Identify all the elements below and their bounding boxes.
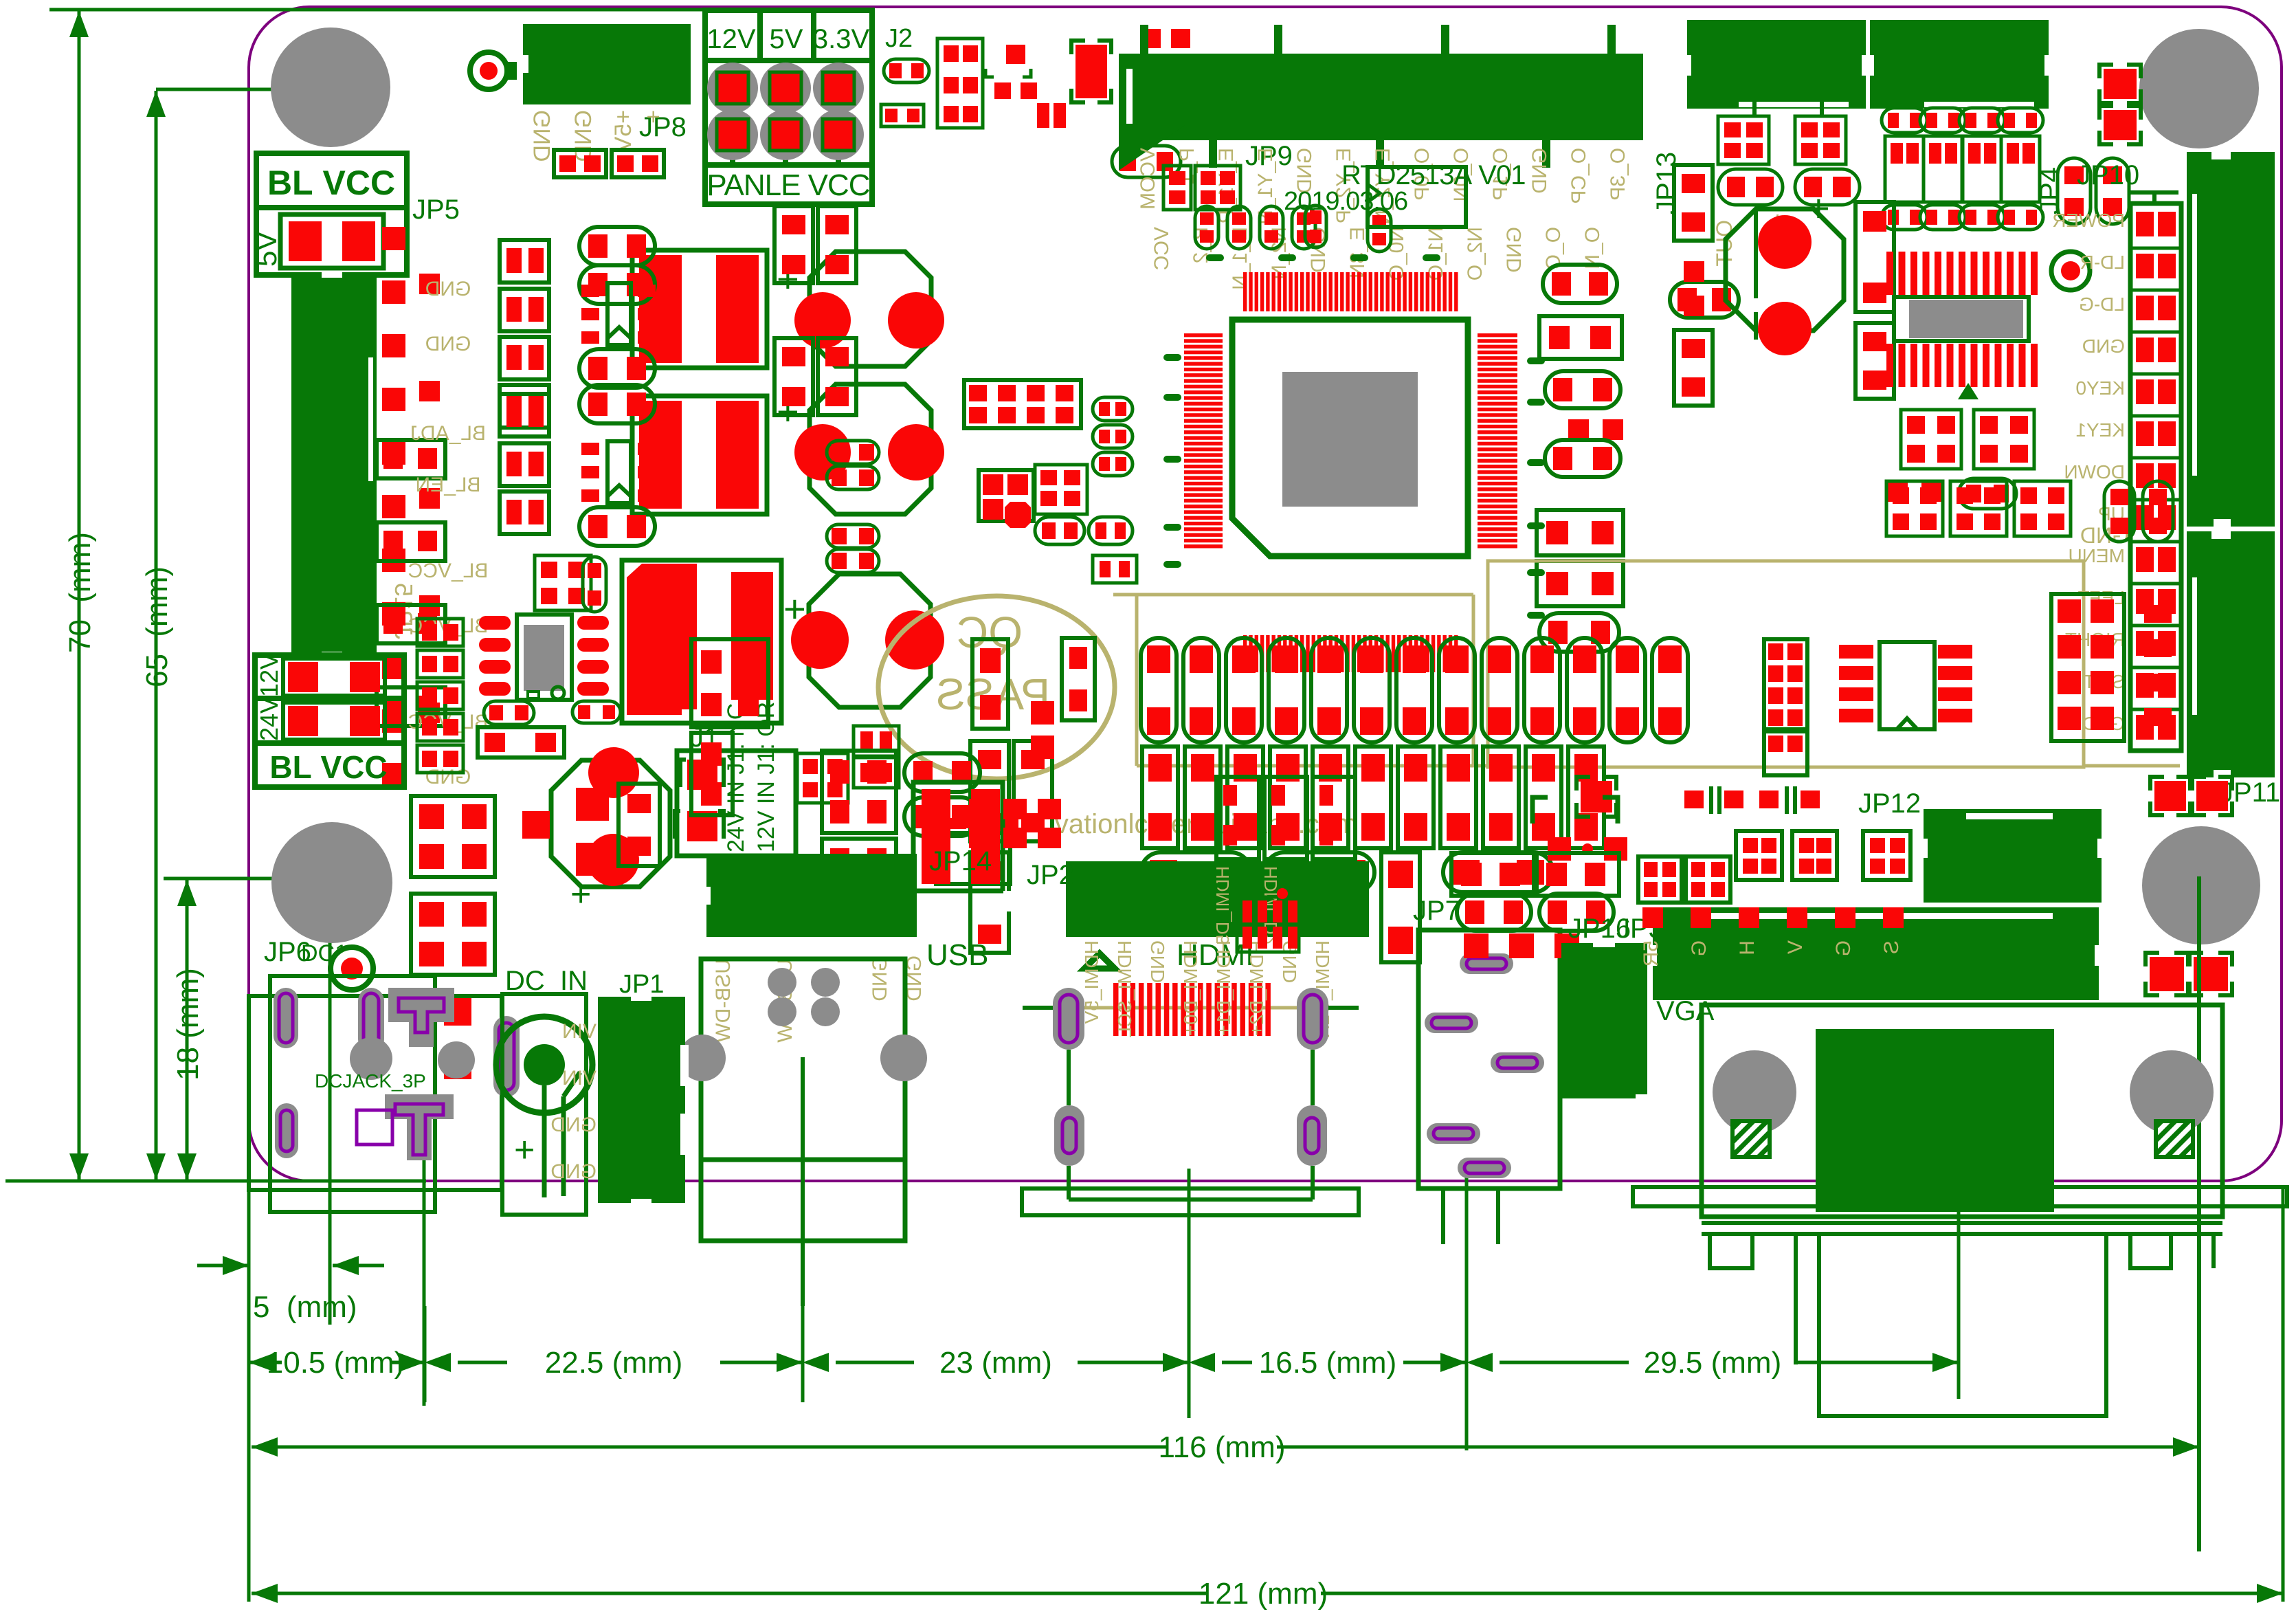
svg-text:BL_EN: BL_EN — [415, 474, 480, 496]
board outline — [249, 7, 2282, 1181]
svg-text:GND: GND — [570, 110, 597, 162]
svg-text:G: G — [1688, 940, 1710, 956]
pad cluster left of JP9 labels — [1163, 166, 1191, 210]
svg-text:5 (mm): 5 (mm) — [253, 1290, 357, 1324]
U1 bottom pin row — [1243, 635, 1247, 672]
pads left of C10 — [1674, 165, 1713, 241]
chip U2 SOP gray — [1884, 252, 2040, 295]
svg-text:+: + — [514, 1130, 535, 1170]
connector block PANLE VCC — [705, 10, 872, 204]
HDMI shell wires — [1067, 1050, 1071, 1105]
pads top-right corner — [2104, 69, 2137, 99]
dim 121 mm — [250, 1592, 254, 1595]
pad cluster mid-left lower — [411, 796, 495, 877]
svg-text:116 (mm): 116 (mm) — [1159, 1430, 1286, 1464]
regulator U3 SOP8 — [517, 615, 572, 700]
dimension 70 mm — [49, 8, 832, 12]
svg-text:JP2: JP2 — [1027, 860, 1074, 890]
svg-text:S: S — [1880, 940, 1903, 954]
opto U5 outline — [936, 833, 1010, 884]
diode D2 footprint — [579, 385, 655, 423]
connector JP7 jack footprint — [1418, 930, 1560, 1189]
VGA bottom rails — [1702, 1221, 2222, 1225]
test ring pad right — [2051, 252, 2090, 290]
chip U4 SOIC8 — [1880, 642, 1935, 729]
khaki trace HDMI row — [1024, 1006, 1357, 1010]
svg-text:G: G — [1832, 940, 1855, 956]
svg-text:GND: GND — [550, 1160, 597, 1183]
svg-text:23 (mm): 23 (mm) — [939, 1346, 1052, 1380]
svg-text:VIN: VIN — [562, 1020, 597, 1043]
capacitor C3 electrolytic — [809, 574, 930, 707]
DC jack pads — [274, 988, 298, 1048]
pad cluster right of U1 lower — [1537, 510, 1623, 555]
connector JP13 — [1687, 20, 1866, 109]
silkscreen QC PASS stamp — [878, 596, 1115, 779]
transformer T1 footprint — [632, 250, 767, 368]
connector JP9 — [1119, 54, 1643, 140]
purple fiducial square — [357, 1110, 392, 1145]
svg-text:HDMI_SCL: HDMI_SCL — [1114, 940, 1135, 1038]
capacitor C1 electrolytic — [810, 252, 931, 366]
pad cluster right of U1 upper — [1543, 265, 1617, 303]
JP9 pin1 triangle — [1119, 125, 1185, 170]
svg-text:JP11: JP11 — [2220, 777, 2280, 808]
pad cluster above JP7 — [1451, 853, 1534, 896]
connector JP16 — [1561, 943, 1647, 1098]
svg-text:KEY1: KEY1 — [2075, 419, 2125, 441]
bottom bracket under HDMI — [1022, 1189, 1359, 1215]
VGA mount hole left — [1713, 1050, 1796, 1134]
connector block BL VCC bottom — [255, 655, 404, 698]
pad grid 4x2 mid-right — [1764, 639, 1807, 729]
inductor L1 — [622, 560, 781, 723]
svg-text:BL VCC: BL VCC — [267, 164, 395, 202]
svg-text:+: + — [1807, 186, 1830, 230]
svg-text:J2: J2 — [885, 24, 913, 53]
svg-text:POWER: POWER — [2052, 210, 2125, 231]
svg-text:+: + — [570, 874, 591, 914]
chip U1 RTD2513A QFP outline — [1232, 320, 1468, 556]
svg-text:22.5 (mm): 22.5 (mm) — [545, 1346, 682, 1380]
svg-text:VGA: VGA — [1656, 996, 1715, 1026]
connector JP3 — [1653, 907, 2099, 1000]
svg-text:VCOM: VCOM — [1137, 148, 1159, 210]
U1 left pin row — [1184, 333, 1223, 337]
transformer T2 footprint — [632, 396, 767, 514]
SOT pads column A — [500, 240, 549, 283]
solder pads near DC area — [444, 998, 471, 1026]
pads column right of C10 — [1855, 202, 1894, 312]
capacitor pads JP12 left — [1684, 791, 1704, 808]
svg-text:GND: GND — [425, 333, 471, 355]
dim 23 mm — [801, 1361, 805, 1364]
svg-text:10.5 (mm): 10.5 (mm) — [267, 1346, 404, 1380]
svg-text:HDMI_D0+: HDMI_D0+ — [1180, 940, 1201, 1036]
svg-text:HDMI_D2+: HDMI_D2+ — [1246, 940, 1267, 1036]
USB connector footprint — [701, 959, 905, 1160]
oval pads pair on C2 — [827, 441, 879, 464]
pad group below JP8 — [554, 150, 606, 177]
svg-text:JP13: JP13 — [1651, 152, 1682, 214]
svg-text:GND: GND — [425, 278, 471, 300]
bracket cluster mid — [1581, 781, 1612, 812]
pad pair mid-left — [854, 726, 899, 756]
VGA screw boss left hatched — [1732, 1121, 1770, 1157]
svg-text:16.5 (mm): 16.5 (mm) — [1259, 1346, 1396, 1380]
svg-text:3.3V: 3.3V — [813, 24, 870, 54]
mounting hole bottom-left — [271, 822, 392, 943]
pad cluster below JP13 — [1718, 116, 1769, 164]
dimension 18 mm — [164, 877, 323, 881]
pads left of array — [972, 639, 1008, 729]
pad cluster right mid upper — [1886, 481, 1943, 536]
HDMI warning triangle — [1081, 951, 1118, 970]
svg-text:V: V — [1784, 940, 1807, 954]
svg-text:E_3N: E_3N — [1346, 227, 1369, 278]
svg-text:GND: GND — [2082, 335, 2125, 357]
svg-text:JP12: JP12 — [1858, 788, 1921, 819]
mounting hole top-left — [271, 27, 390, 147]
pad cluster HDMI left — [1216, 777, 1259, 859]
oval column right of C2 — [1093, 397, 1133, 421]
svg-text:PANLE VCC: PANLE VCC — [706, 168, 869, 202]
svg-text:N2_O: N2_O — [1464, 227, 1486, 280]
svg-text:65 (mm): 65 (mm) — [140, 566, 174, 687]
svg-text:BL VCC: BL VCC — [269, 749, 387, 785]
reference line x=480 — [328, 881, 332, 1325]
pad grid above U3 — [535, 555, 591, 610]
pad cluster U6 — [979, 470, 1034, 521]
pad column right of BL VCC — [417, 619, 463, 646]
board bottom extension line — [5, 1180, 426, 1183]
U1 die — [1282, 372, 1418, 507]
pad column right of J1 — [822, 751, 896, 833]
svg-text:BL_ADJ: BL_ADJ — [410, 422, 486, 445]
svg-text:KEY0: KEY0 — [2075, 377, 2125, 399]
JP11 pads — [2154, 781, 2186, 811]
khaki net traces — [1488, 561, 2084, 767]
svg-text:GND: GND — [550, 1114, 597, 1136]
svg-text:GND: GND — [1147, 940, 1168, 983]
pin1 mark triangle — [1958, 383, 1979, 399]
mounting hole top-right — [2139, 29, 2259, 148]
connector JP1 — [598, 997, 685, 1203]
pad cluster left of J1 — [691, 639, 768, 727]
svg-text:DCJACK_3P: DCJACK_3P — [315, 1070, 426, 1092]
pad clusters JP12 area — [1736, 831, 1782, 880]
svg-text:29.5 (mm): 29.5 (mm) — [1644, 1346, 1781, 1380]
svg-text:USB: USB — [926, 938, 988, 972]
HDMI shell pads — [1053, 988, 1084, 1050]
VGA mount hole right — [2130, 1050, 2214, 1134]
svg-text:JP1: JP1 — [619, 970, 664, 999]
connector block BL VCC top — [256, 153, 407, 208]
svg-text:HDMI_D5: HDMI_D5 — [1212, 866, 1233, 944]
dimension 65 mm — [156, 88, 331, 91]
svg-text:5V: 5V — [770, 24, 803, 54]
svg-text:+5V: +5V — [610, 110, 636, 153]
svg-text:BL_VCC: BL_VCC — [408, 560, 489, 582]
pad cluster below JP4 — [1882, 108, 1927, 133]
dim 116 mm — [250, 1446, 254, 1449]
svg-text:5V: 5V — [250, 232, 282, 267]
U1 top pin row — [1243, 272, 1247, 311]
U1 right pin row — [1478, 333, 1517, 337]
svg-text:O_CP: O_CP — [1568, 148, 1590, 204]
pad cluster top mid-right — [1141, 29, 1161, 48]
svg-text:LD-G: LD-G — [2079, 294, 2125, 315]
HDMI small outline — [1212, 885, 1304, 920]
svg-text:USB-DW: USB-DW — [712, 959, 735, 1043]
svg-text:VIN: VIN — [562, 1067, 597, 1090]
dimension 5 mm — [197, 1264, 249, 1268]
pad pairs between transformers — [774, 206, 813, 283]
svg-text:HDMI_D1+: HDMI_D1+ — [1213, 940, 1234, 1036]
mounting hole bottom-right — [2142, 826, 2260, 944]
svg-text:GND: GND — [529, 110, 555, 162]
svg-text:JP7: JP7 — [1413, 896, 1460, 926]
svg-text:JP5: JP5 — [412, 195, 460, 225]
VGA screw boss right hatched — [2156, 1121, 2193, 1157]
svg-text:LD-R: LD-R — [2080, 252, 2125, 273]
connector right edge lower — [2187, 531, 2275, 777]
svg-text:DC_IN: DC_IN — [505, 966, 588, 996]
pad grids right mid — [2051, 594, 2124, 741]
pad array below U1 row2 — [1142, 747, 1178, 848]
connector right edge upper — [2187, 152, 2275, 527]
svg-text:12V: 12V — [255, 653, 283, 697]
pads row below JP12 clusters — [1642, 907, 1663, 928]
svg-text:18 (mm): 18 (mm) — [171, 968, 205, 1081]
oval pads above C3 — [827, 524, 879, 548]
capacitor C4 electrolytic — [551, 760, 670, 887]
svg-text:O_3P: O_3P — [1607, 148, 1629, 201]
dim 29.5 mm — [1465, 1361, 1469, 1364]
svg-text:+: + — [640, 110, 667, 124]
svg-text:GND: GND — [869, 955, 891, 1002]
bottom dimension chain — [247, 1323, 251, 1402]
pad box 2x4 right of C2 — [964, 380, 1081, 428]
test point ring pad — [470, 52, 507, 89]
U1 side tick marks — [1163, 354, 1181, 361]
VGA connector outline — [1702, 1005, 2222, 1217]
dim 22.5 mm — [423, 1361, 427, 1364]
pad array row3 — [1141, 852, 1251, 892]
VGA legs below board — [1708, 1234, 1712, 1268]
svg-text:70 (mm): 70 (mm) — [63, 532, 97, 653]
svg-text:2019.03.06: 2019.03.06 — [1284, 187, 1407, 216]
svg-text:24V: 24V — [255, 697, 283, 741]
wire from mounting hole to dim — [2197, 876, 2201, 1551]
dim 16.5 mm — [1188, 1361, 1191, 1364]
svg-text:5R: 5R — [1640, 940, 1662, 966]
connector JP14 — [706, 854, 917, 937]
HDMI pin strip — [1113, 983, 1119, 1036]
svg-text:VCC: VCC — [1150, 227, 1173, 270]
diode D1 footprint — [579, 227, 655, 265]
pad array below U1 row1 — [1141, 638, 1177, 742]
connector JP4 — [1870, 20, 2049, 109]
oval pads below U3 — [484, 701, 534, 725]
header JP10 — [2130, 203, 2181, 751]
reference line board left edge extended — [247, 1186, 251, 1602]
VGA body — [1816, 1029, 2054, 1212]
svg-text:DOWN: DOWN — [2064, 461, 2125, 483]
svg-text:12V: 12V — [706, 24, 755, 54]
svg-text:GND: GND — [1503, 227, 1526, 273]
svg-text:JP14: JP14 — [929, 846, 992, 876]
IC U7 outline — [1368, 167, 1466, 227]
connector JP2 — [1066, 861, 1369, 937]
connector JP15 backlight — [291, 275, 377, 654]
svg-text:MENU: MENU — [2069, 545, 2125, 566]
svg-text:H: H — [1736, 940, 1759, 955]
pad cluster near J2 — [884, 59, 929, 82]
connector JP8 — [523, 24, 691, 104]
big red pads JP14 top — [913, 782, 1003, 891]
dim 10.5 mm — [249, 1361, 282, 1364]
capacitor C10 electrolytic — [1726, 209, 1844, 331]
SOT pads column B — [500, 394, 549, 436]
svg-text:121 (mm): 121 (mm) — [1199, 1577, 1328, 1611]
pad rows above JP2 — [969, 799, 992, 819]
long thin rect below board right — [1633, 1187, 2287, 1206]
capacitor C2 electrolytic — [810, 384, 931, 514]
svg-text:JP10: JP10 — [2077, 160, 2139, 190]
pad cluster below SOP — [1901, 410, 1961, 469]
connector above JP3 — [1924, 809, 2102, 903]
svg-text:GND: GND — [1528, 148, 1551, 194]
